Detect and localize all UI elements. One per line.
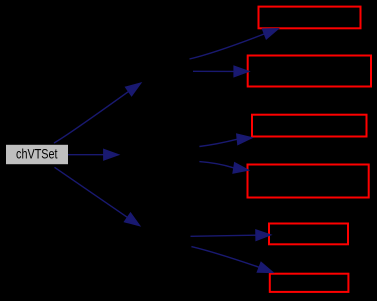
edge node1 -> box2 <box>193 66 249 76</box>
edge node2 -> box4 <box>199 162 248 173</box>
edge chVTSet -> node1 <box>54 83 141 143</box>
red box 2 <box>248 56 371 87</box>
red box 5 <box>269 224 348 245</box>
edge node3 -> box5 <box>191 230 271 240</box>
edge chVTSet -> node3 <box>55 167 140 225</box>
node chVTSet (root) <box>6 145 68 164</box>
arrows <box>54 29 278 273</box>
edge node2 -> box3 <box>199 134 251 146</box>
edge chVTSet -> node2 <box>68 150 118 160</box>
edge node3 -> box6 <box>191 247 272 273</box>
red box 6 <box>270 274 349 292</box>
red box 3 <box>252 115 367 137</box>
red box 4 <box>248 165 369 198</box>
red box 1 (top right) <box>259 7 361 29</box>
svg-text:chVTSet: chVTSet <box>16 147 58 162</box>
edge node1 -> box1 <box>190 29 279 59</box>
